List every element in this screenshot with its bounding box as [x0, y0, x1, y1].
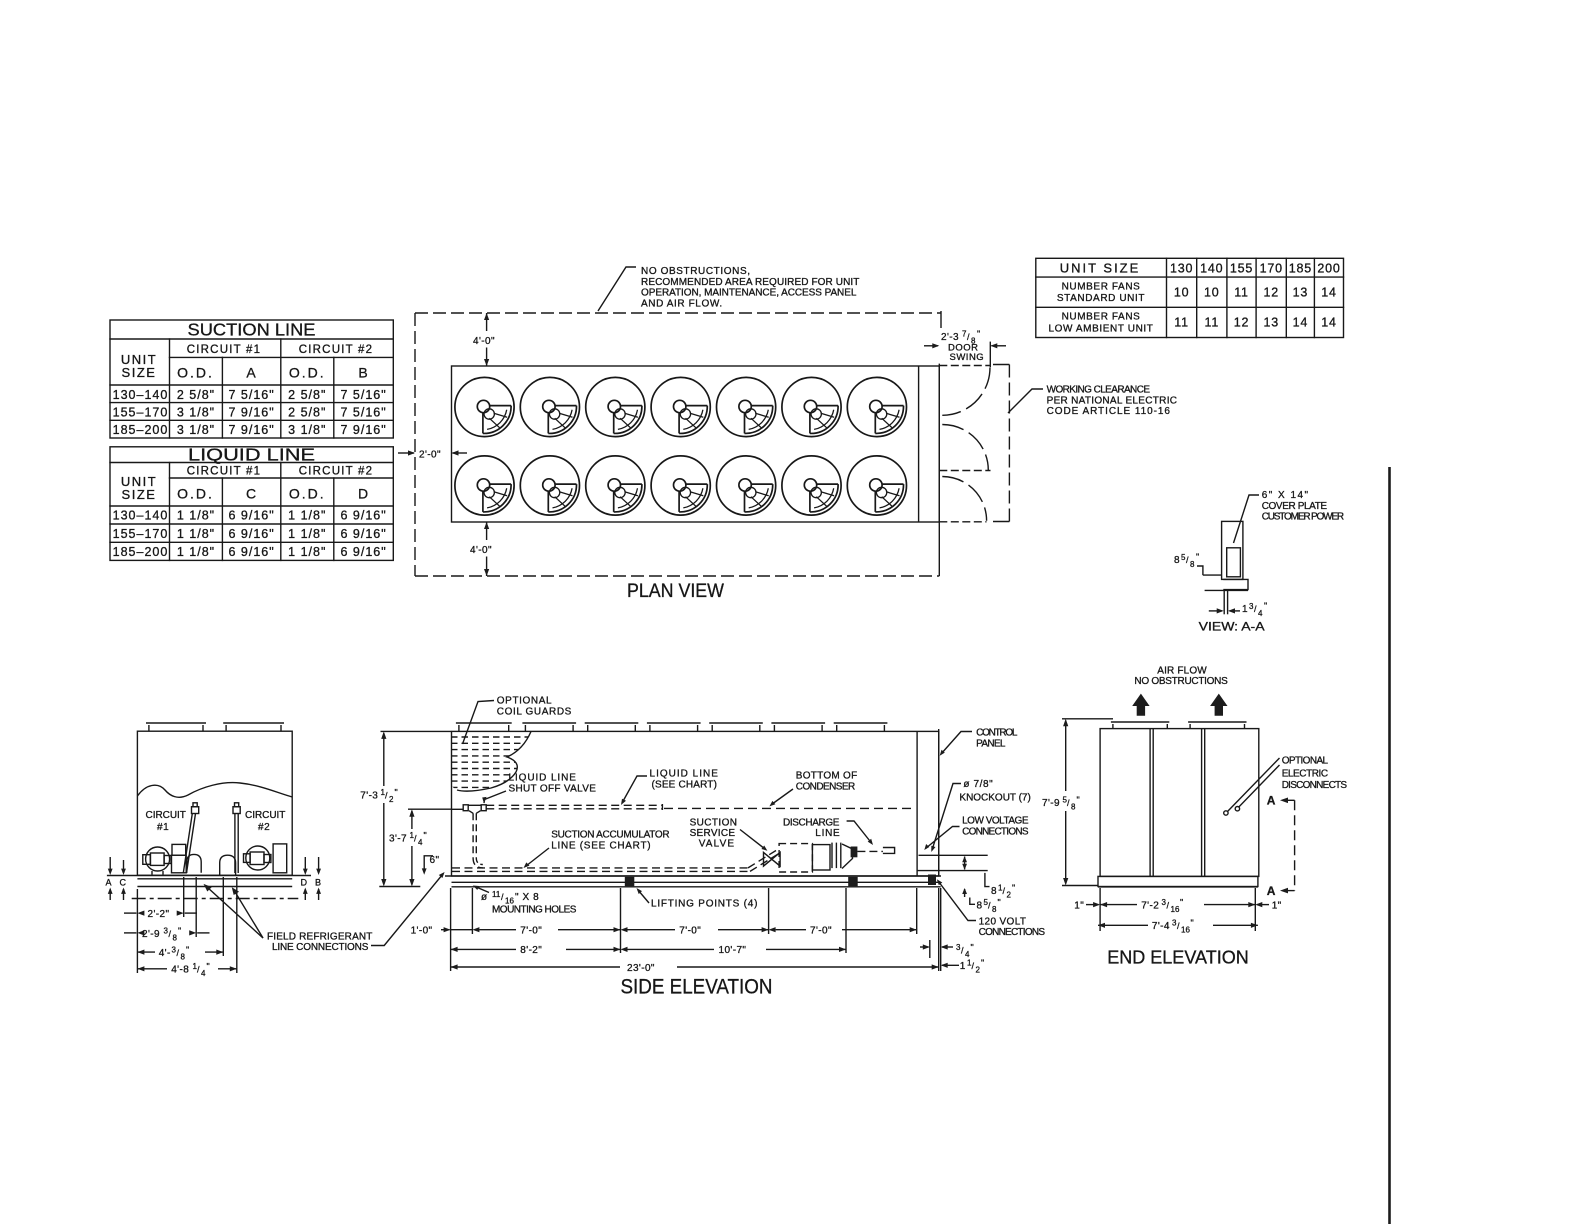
svg-text:130–140: 130–140 — [113, 509, 169, 523]
svg-text:10'-7": 10'-7" — [719, 945, 747, 956]
svg-text:2: 2 — [1007, 891, 1012, 900]
svg-text:3 1/8": 3 1/8" — [177, 406, 215, 420]
circuit 1 riser pipe — [183, 803, 198, 873]
base line — [1205, 589, 1248, 591]
liquid line table frame — [110, 447, 393, 561]
svg-text:16: 16 — [1171, 905, 1180, 914]
svg-text:CONNECTIONS: CONNECTIONS — [962, 826, 1029, 837]
suction line table frame — [110, 320, 393, 438]
svg-text:": " — [981, 958, 984, 968]
svg-text:DISCONNECTS: DISCONNECTS — [1282, 780, 1348, 791]
svg-text:1 1/8": 1 1/8" — [177, 545, 215, 559]
fan row 2 — [455, 456, 514, 515]
svg-text:NUMBER FANS: NUMBER FANS — [1062, 312, 1141, 323]
unit size / fans table frame — [1036, 258, 1344, 337]
dim row 7'-0" x3 and 1'-0" — [441, 927, 917, 932]
svg-text:SIZE: SIZE — [122, 487, 157, 502]
svg-text:2: 2 — [389, 795, 394, 804]
svg-text:SIDE ELEVATION: SIDE ELEVATION — [621, 975, 773, 999]
base channel (bold) — [445, 875, 941, 877]
svg-text:12: 12 — [1234, 316, 1250, 330]
svg-text:CONNECTIONS: CONNECTIONS — [979, 927, 1046, 938]
svg-text:8: 8 — [1071, 803, 1076, 812]
svg-text:7 5/16": 7 5/16" — [340, 406, 386, 420]
svg-text:": " — [1196, 552, 1199, 562]
compressor circuit 1 — [143, 844, 201, 874]
base rail — [137, 879, 292, 887]
svg-text:DISCHARGE: DISCHARGE — [783, 818, 840, 829]
svg-text:#2: #2 — [258, 822, 270, 833]
unit size / fans table text — [1049, 261, 1341, 335]
svg-text:7'-0": 7'-0" — [810, 926, 832, 937]
base band — [1098, 876, 1258, 886]
svg-text:": " — [186, 945, 189, 955]
svg-text:ø: ø — [481, 892, 488, 903]
svg-text:C: C — [246, 486, 257, 502]
dim 4'-8 1/4" — [137, 966, 236, 971]
suction accumulator line (dashed pipe) — [452, 851, 779, 872]
svg-text:8: 8 — [181, 953, 186, 962]
svg-text:O.D.: O.D. — [177, 486, 214, 502]
working clearance note — [1047, 385, 1178, 418]
svg-text:VALVE: VALVE — [699, 838, 735, 849]
fan cap 2 — [1188, 721, 1246, 723]
dim row 1" / 7'-2 3/16" / 1" — [1086, 902, 1269, 907]
svg-text:7'-3: 7'-3 — [360, 791, 378, 802]
cover plate note — [1262, 490, 1345, 523]
svg-text:LOW AMBIENT UNIT: LOW AMBIENT UNIT — [1049, 324, 1154, 335]
svg-text:": " — [207, 962, 210, 972]
svg-text:3 1/8": 3 1/8" — [288, 423, 326, 437]
base step — [1223, 579, 1248, 589]
svg-text:7'-2: 7'-2 — [1141, 900, 1159, 911]
svg-text:8: 8 — [1174, 555, 1180, 566]
svg-text:130–140: 130–140 — [113, 388, 169, 402]
svg-text:3 1/8": 3 1/8" — [177, 423, 215, 437]
svg-text:8: 8 — [991, 886, 997, 897]
svg-text:": " — [1012, 883, 1015, 893]
svg-text:OPERATION, MAINTENANCE, ACCESS: OPERATION, MAINTENANCE, ACCESS PANEL — [641, 288, 857, 299]
svg-text:VIEW: A-A: VIEW: A-A — [1199, 620, 1265, 634]
svg-text:NUMBER FANS: NUMBER FANS — [1062, 282, 1141, 293]
svg-text:8: 8 — [977, 901, 983, 912]
svg-text:2 5/8": 2 5/8" — [288, 388, 326, 402]
svg-text:LINE: LINE — [815, 828, 840, 839]
svg-text:10: 10 — [1174, 286, 1190, 300]
svg-text:155–170: 155–170 — [113, 527, 169, 541]
discharge service valve (solid) — [851, 847, 858, 858]
svg-text:6 9/16": 6 9/16" — [228, 527, 274, 541]
svg-text:1": 1" — [1074, 900, 1084, 911]
svg-text:1 1/8": 1 1/8" — [288, 509, 326, 523]
svg-text:2'-9: 2'-9 — [142, 929, 160, 940]
panel dividers — [1150, 729, 1205, 877]
svg-text:B: B — [315, 878, 321, 888]
svg-text:13: 13 — [1293, 286, 1309, 300]
svg-text:O.D.: O.D. — [177, 365, 214, 381]
svg-text:1": 1" — [1272, 900, 1282, 911]
svg-text:A: A — [106, 878, 112, 888]
dim 2'-9 3/8" — [124, 930, 210, 935]
access door middle (bold dashed) — [939, 470, 990, 472]
compressor flange bars — [831, 843, 833, 869]
door swing arc middle — [942, 425, 988, 471]
svg-text:KNOCKOUT (7): KNOCKOUT (7) — [959, 793, 1031, 804]
left height dims — [379, 731, 451, 886]
leaders to refrigerant connections — [204, 872, 445, 946]
svg-text:": " — [977, 329, 980, 339]
svg-text:7 9/16": 7 9/16" — [228, 423, 274, 437]
svg-text:": " — [1180, 897, 1183, 907]
svg-text:14: 14 — [1321, 316, 1337, 330]
svg-text:": " — [971, 943, 974, 953]
connection height dims D B — [303, 857, 321, 900]
svg-text:1: 1 — [1242, 604, 1248, 615]
svg-text:185–200: 185–200 — [113, 545, 169, 559]
svg-text:A: A — [1267, 884, 1276, 898]
svg-text:ø 7/8": ø 7/8" — [963, 779, 993, 790]
svg-text:6 9/16": 6 9/16" — [340, 527, 386, 541]
bottom of condenser (dashed) — [664, 807, 915, 809]
clearance boundary (dashed) — [415, 313, 1009, 576]
svg-text:14: 14 — [1293, 316, 1309, 330]
suction accumulator (dashed box) — [779, 844, 812, 872]
coil guard boundary — [457, 732, 531, 792]
svg-text:(SEE CHART): (SEE CHART) — [652, 779, 718, 790]
svg-text:": " — [1264, 601, 1267, 611]
svg-text:185–200: 185–200 — [113, 423, 169, 437]
fan deck cap 1 — [146, 722, 206, 724]
coil guard hatch — [451, 737, 532, 787]
svg-text:4'-8: 4'-8 — [171, 965, 189, 976]
svg-text:10: 10 — [1204, 286, 1220, 300]
SECTION: left end view — [106, 723, 445, 978]
svg-text:COVER PLATE: COVER PLATE — [1262, 501, 1328, 512]
svg-text:1 1/8": 1 1/8" — [177, 509, 215, 523]
svg-text:RECOMMENDED AREA REQUIRED FOR: RECOMMENDED AREA REQUIRED FOR UNIT — [641, 277, 860, 288]
svg-text:PER NATIONAL ELECTRIC: PER NATIONAL ELECTRIC — [1047, 395, 1178, 406]
svg-text:CIRCUIT #1: CIRCUIT #1 — [187, 344, 261, 356]
svg-text:LIQUID LINE: LIQUID LINE — [509, 773, 577, 784]
svg-text:LIQUID LINE: LIQUID LINE — [650, 769, 719, 780]
suction line table text — [113, 320, 387, 438]
svg-text:6 9/16": 6 9/16" — [228, 545, 274, 559]
svg-text:6 9/16": 6 9/16" — [340, 545, 386, 559]
svg-text:A: A — [246, 365, 256, 381]
svg-text:1: 1 — [960, 961, 966, 972]
svg-text:8: 8 — [173, 934, 178, 943]
svg-text:UNIT SIZE: UNIT SIZE — [1060, 261, 1141, 276]
page border line — [1388, 467, 1391, 1224]
svg-text:3'-7: 3'-7 — [389, 834, 407, 845]
leaders to disconnect points — [1224, 758, 1280, 815]
svg-text:MOUNTING HOLES: MOUNTING HOLES — [492, 905, 577, 916]
panel side profile — [1222, 521, 1243, 579]
svg-text:": " — [1191, 918, 1194, 928]
svg-text:4: 4 — [201, 969, 206, 978]
svg-text:CONTROL: CONTROL — [976, 728, 1018, 739]
SECTION: tables — [110, 258, 1344, 560]
svg-text:7'-9: 7'-9 — [1042, 798, 1060, 809]
liquid line table text — [113, 445, 387, 560]
leader to cover plate — [1234, 495, 1260, 543]
svg-text:2: 2 — [976, 966, 981, 975]
circuit 2 riser pipe — [233, 803, 240, 873]
svg-text:2'-2": 2'-2" — [148, 909, 170, 920]
svg-text:AND AIR FLOW.: AND AIR FLOW. — [641, 298, 723, 309]
control panel edge (bold) — [938, 729, 940, 876]
svg-text:CONDENSER: CONDENSER — [796, 781, 856, 792]
svg-text:155: 155 — [1230, 262, 1253, 276]
dim row 8'-2" / 10'-7" / 3/4" — [451, 944, 953, 952]
svg-text:CIRCUIT #2: CIRCUIT #2 — [299, 344, 373, 356]
bottom extension lines — [451, 888, 941, 971]
svg-text:1 1/8": 1 1/8" — [288, 527, 326, 541]
air flow arrow 2 — [1210, 694, 1227, 716]
dim 1 3/4" — [1209, 608, 1240, 613]
svg-text:" X 8: " X 8 — [515, 892, 539, 903]
svg-text:23'-0": 23'-0" — [627, 963, 655, 974]
fan cap 1 — [1111, 721, 1169, 723]
centerline under unit — [132, 898, 299, 900]
unit cabinet — [137, 731, 292, 875]
svg-text:SIZE: SIZE — [122, 365, 157, 380]
control panel inner divider — [916, 731, 918, 876]
unit edge extension to clearance — [938, 522, 940, 576]
svg-text:4'-: 4'- — [159, 948, 171, 959]
svg-text:NO OBSTRUCTIONS,: NO OBSTRUCTIONS, — [641, 266, 751, 277]
svg-text:2 5/8": 2 5/8" — [177, 388, 215, 402]
right side connection dims — [917, 855, 989, 904]
svg-text:1 1/8": 1 1/8" — [177, 527, 215, 541]
dim row 7'-4 3/16" — [1098, 923, 1258, 928]
svg-text:LINE (SEE CHART): LINE (SEE CHART) — [551, 840, 651, 851]
connection height dims A C — [108, 857, 126, 900]
fan section divider — [918, 366, 920, 522]
svg-text:SUCTION: SUCTION — [690, 818, 738, 829]
fan deck cap 2 — [223, 722, 284, 724]
clearance boundary stubs — [993, 365, 1009, 522]
svg-text:4'-0": 4'-0" — [470, 545, 492, 556]
svg-text:2'-3: 2'-3 — [941, 332, 959, 343]
svg-text:11: 11 — [1174, 316, 1189, 330]
dim 2'-2" — [124, 911, 197, 916]
svg-text:LIFTING POINTS (4): LIFTING POINTS (4) — [651, 899, 758, 910]
SECTION: view A-A — [1174, 490, 1345, 634]
svg-text:130: 130 — [1170, 262, 1193, 276]
svg-text:4: 4 — [418, 838, 423, 847]
svg-text:7 5/16": 7 5/16" — [228, 388, 274, 402]
svg-text:8: 8 — [1190, 560, 1195, 569]
svg-text:8'-2": 8'-2" — [520, 945, 542, 956]
svg-text:7'-0": 7'-0" — [520, 926, 542, 937]
svg-text:WORKING CLEARANCE: WORKING CLEARANCE — [1047, 385, 1151, 396]
svg-text:": " — [395, 788, 398, 798]
svg-text:6 9/16": 6 9/16" — [228, 509, 274, 523]
svg-text:FIELD REFRIGERANT: FIELD REFRIGERANT — [267, 932, 373, 943]
liquid line shut off valve — [452, 805, 487, 868]
svg-text:11: 11 — [1234, 286, 1249, 300]
svg-text:11: 11 — [1205, 316, 1220, 330]
svg-text:120 VOLT: 120 VOLT — [979, 917, 1027, 928]
svg-text:": " — [424, 831, 427, 841]
svg-text:STANDARD UNIT: STANDARD UNIT — [1057, 293, 1145, 304]
svg-text:13: 13 — [1263, 316, 1279, 330]
fan deck caps — [456, 723, 888, 731]
svg-text:D: D — [301, 878, 308, 888]
svg-text:NO OBSTRUCTIONS: NO OBSTRUCTIONS — [1134, 676, 1228, 687]
condenser unit outline — [452, 366, 940, 522]
svg-text:6 9/16": 6 9/16" — [340, 509, 386, 523]
dim 2'-0" left — [398, 450, 467, 455]
svg-text:LINE CONNECTIONS: LINE CONNECTIONS — [272, 942, 369, 953]
svg-text:O.D.: O.D. — [289, 365, 326, 381]
svg-text:COIL GUARDS: COIL GUARDS — [497, 706, 572, 717]
svg-text:CIRCUIT: CIRCUIT — [146, 810, 187, 821]
svg-text:BOTTOM OF: BOTTOM OF — [796, 771, 858, 782]
svg-text:PLAN VIEW: PLAN VIEW — [627, 581, 724, 602]
svg-text:O.D.: O.D. — [289, 486, 326, 502]
svg-text:ELECTRIC: ELECTRIC — [1282, 768, 1329, 779]
svg-text:B: B — [358, 365, 368, 381]
dim 4'-0" top — [484, 313, 489, 366]
compressor body — [812, 845, 830, 870]
fan row 1 — [455, 377, 514, 436]
door swing arc bottom — [942, 477, 986, 521]
access door bottom (bold dashed) — [939, 521, 986, 523]
compressor circuit 2 — [220, 844, 287, 875]
dim 7'-9 5/8" — [1062, 719, 1113, 886]
svg-text:1'-0": 1'-0" — [411, 926, 433, 937]
svg-text:SUCTION ACCUMULATOR: SUCTION ACCUMULATOR — [551, 830, 670, 841]
discharge stub — [883, 848, 895, 854]
svg-text:4'-0": 4'-0" — [473, 336, 495, 347]
svg-text:OPTIONAL: OPTIONAL — [497, 696, 552, 707]
svg-text:SHUT OFF VALVE: SHUT OFF VALVE — [509, 783, 597, 794]
svg-text:SUCTION LINE: SUCTION LINE — [188, 320, 316, 340]
air flow arrow 1 — [1132, 694, 1149, 716]
svg-text:155–170: 155–170 — [113, 406, 169, 420]
svg-text:7 9/16": 7 9/16" — [228, 406, 274, 420]
extension lines — [137, 877, 236, 973]
svg-text:AIR FLOW: AIR FLOW — [1157, 666, 1207, 677]
svg-text:LIQUID LINE: LIQUID LINE — [188, 445, 315, 465]
suction service valve (bowtie) — [764, 852, 781, 866]
leader to coil guard — [463, 701, 495, 745]
svg-text:7 5/16": 7 5/16" — [340, 388, 386, 402]
svg-text:1 1/8": 1 1/8" — [288, 545, 326, 559]
svg-text:CODE ARTICLE 110-16: CODE ARTICLE 110-16 — [1047, 406, 1171, 417]
panel stub below — [1223, 590, 1225, 614]
discharge pipe — [857, 850, 883, 852]
extension lines below — [1100, 888, 1255, 931]
svg-text:12: 12 — [1263, 286, 1279, 300]
svg-text:7 9/16": 7 9/16" — [340, 423, 386, 437]
dim 4'-0" bottom — [484, 522, 489, 576]
svg-text:CIRCUIT: CIRCUIT — [245, 810, 286, 821]
svg-text:CUSTOMER POWER: CUSTOMER POWER — [1262, 512, 1345, 523]
SECTION: end elevation — [1042, 666, 1348, 968]
unit cabinet — [452, 731, 939, 876]
door swing arc top — [942, 368, 990, 416]
svg-text:SWING: SWING — [950, 352, 985, 363]
compressor cone — [842, 844, 853, 869]
svg-text:14: 14 — [1321, 286, 1337, 300]
svg-text:185: 185 — [1289, 262, 1312, 276]
foundation line (bold) — [107, 875, 311, 877]
svg-text:": " — [1077, 795, 1080, 805]
svg-text:140: 140 — [1200, 262, 1223, 276]
svg-text:CIRCUIT #1: CIRCUIT #1 — [187, 466, 261, 478]
svg-text:11: 11 — [492, 890, 501, 899]
svg-text:7'-0": 7'-0" — [679, 926, 701, 937]
liquid line (dashed pipe) — [486, 805, 662, 809]
leader to clearance notch — [1008, 389, 1043, 413]
svg-text:C: C — [120, 878, 127, 888]
svg-text:2'-0": 2'-0" — [419, 450, 441, 461]
svg-text:OPTIONAL: OPTIONAL — [1282, 756, 1329, 767]
svg-text:200: 200 — [1317, 262, 1340, 276]
svg-text:END ELEVATION: END ELEVATION — [1107, 948, 1249, 968]
unit right edge (bold) — [938, 364, 940, 523]
svg-text:6": 6" — [430, 855, 440, 866]
svg-text:CIRCUIT #2: CIRCUIT #2 — [299, 466, 373, 478]
no obstructions note — [641, 266, 860, 309]
dim 4'-3/8" — [137, 950, 223, 955]
svg-text:8: 8 — [992, 905, 997, 914]
break (wavy) line — [137, 783, 292, 798]
svg-text:#1: #1 — [157, 822, 169, 833]
svg-text:16: 16 — [1181, 926, 1190, 935]
svg-text:LOW VOLTAGE: LOW VOLTAGE — [962, 816, 1029, 827]
svg-text:170: 170 — [1260, 262, 1283, 276]
svg-text:7'-4: 7'-4 — [1152, 921, 1170, 932]
cover plate (bold) — [1227, 548, 1241, 577]
cabinet — [1100, 729, 1259, 877]
leader to clearance boundary — [598, 267, 636, 311]
svg-text:6" X 14": 6" X 14" — [1262, 490, 1309, 501]
dim row 23'-0" / 1 1/2" — [451, 963, 959, 970]
access door top (bold dashed) — [939, 365, 990, 367]
svg-text:A: A — [1267, 794, 1276, 808]
svg-text:": " — [178, 926, 181, 936]
lifting point squares — [625, 877, 635, 887]
svg-text:": " — [998, 898, 1001, 908]
svg-text:4: 4 — [1258, 609, 1263, 618]
svg-text:D: D — [358, 486, 369, 502]
svg-text:PANEL: PANEL — [976, 738, 1006, 749]
svg-text:2 5/8": 2 5/8" — [288, 406, 326, 420]
